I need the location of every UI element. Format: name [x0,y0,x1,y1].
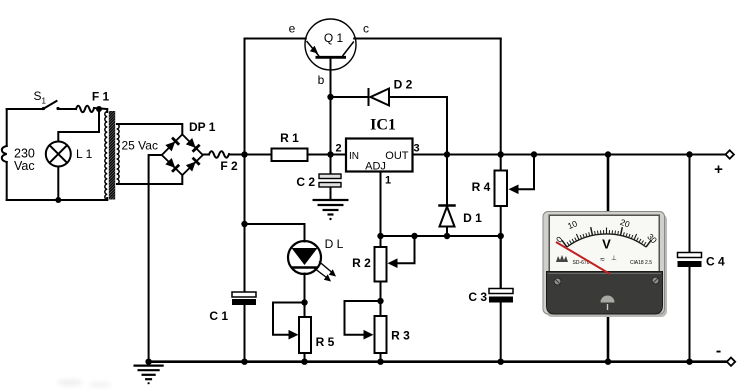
node C3 bottom [498,359,504,365]
transistor Q1 [305,19,356,70]
bridge diode top-left [165,138,179,152]
primary winding stub top [106,109,108,112]
lamp L1 [46,142,71,167]
svg-text:+: + [714,161,723,178]
fuse F1 [76,106,94,113]
node C4 bottom [686,359,692,365]
svg-text:⊥: ⊥ [611,255,617,262]
node base D2 [327,94,333,100]
resistor R2 [345,236,415,362]
bridge rectifier DP1 [162,134,203,175]
node R4 wiper rail [531,151,537,157]
wire mains left upper [6,109,8,146]
capacitor C1 [232,292,256,305]
node ADJ [377,233,383,239]
terminal - [727,358,735,366]
bridge diode bottom-left [165,158,179,172]
wire ADJ lead [380,172,382,237]
terminal + [726,150,734,158]
svg-text:≈: ≈ [600,255,605,264]
svg-text:IN: IN [349,151,359,162]
LED DL [288,241,336,282]
svg-text:R 3: R 3 [391,329,410,343]
wire bridge left corner to ground rail [149,155,162,362]
fuse F2 [209,151,229,158]
node R4 top [498,151,504,157]
node D1 bottom [444,233,450,239]
wire primary bottom [7,199,108,201]
capacitor C4 [678,155,702,362]
bridge diode top-right [185,138,199,152]
svg-text:1: 1 [42,97,47,106]
svg-text:R 5: R 5 [316,335,335,349]
wire rail to R1 [245,154,272,156]
resistor R3 [375,316,387,353]
bridge diode bottom-right [185,158,199,172]
wire OUT rail [413,154,726,156]
svg-text:DP 1: DP 1 [189,120,216,134]
svg-text:Vac: Vac [14,159,35,173]
wire primary top [7,108,43,110]
wiper R4 [509,155,535,195]
node input rail [241,151,247,157]
ground GND1 [135,366,163,385]
node R5 bottom [301,359,307,365]
resistor R5 [273,303,311,354]
svg-text:C 2: C 2 [296,175,315,189]
wiper R5 [273,303,305,335]
node R3 bottom [377,359,383,365]
svg-text:ADJ: ADJ [365,161,386,173]
svg-text:25 Vac: 25 Vac [122,139,158,153]
wire ADJ line [381,235,501,237]
node F1 junction [96,106,102,112]
wire lamp branch [58,109,99,142]
node IN junction [327,151,333,157]
secondary coil bumps [117,124,120,184]
wire left rail lower [244,305,246,362]
node R2/R3 junction [377,298,383,304]
svg-text:3: 3 [413,143,419,155]
svg-text:c: c [363,22,369,36]
wire mains left lower [6,162,8,200]
switch S1 [42,101,60,110]
svg-text:S: S [34,89,42,103]
capacitor C3 [489,236,513,303]
resistor R1 [272,149,308,162]
regulator IC1 [346,139,413,172]
wire bridge to F2 [203,154,209,156]
node C1 bottom [241,359,247,365]
wire secondary bottom to bridge [117,175,182,184]
svg-text:ClA18 2.5: ClA18 2.5 [630,260,652,266]
voltmeter M1 [543,212,667,318]
wire R1 to IC1 [308,154,347,156]
svg-text:R 1: R 1 [280,131,299,145]
node R5 wiper tap [301,299,307,305]
wire top rail collector side [354,38,501,40]
meter scale [554,217,659,247]
wire collector drop / R4 branch [500,39,502,171]
wire base lead [330,58,332,155]
ac source squiggle [2,146,7,162]
node ground rail [145,359,151,365]
svg-text:F 2: F 2 [220,159,238,173]
svg-text:OUT: OUT [385,150,409,162]
svg-text:-: - [716,343,721,360]
needle [556,242,610,274]
primary winding stub bottom [106,198,108,200]
diode D1 [446,155,448,206]
capacitor C2 [319,155,341,200]
node DL branch [241,221,247,227]
resistor R4 [495,171,508,207]
wire secondary top to bridge [117,124,182,134]
primary coil bumps [105,112,107,200]
wire F1 to transformer [94,108,107,109]
svg-text:IC1: IC1 [370,117,396,134]
transformer T1 [105,111,119,200]
wire left rail upper [244,39,246,293]
svg-text:b: b [318,73,325,87]
bottom rail [149,360,727,363]
node C4 top [686,151,692,157]
ground GND2 [313,200,349,220]
svg-text:C 3: C 3 [468,290,487,304]
svg-text:1: 1 [385,175,391,187]
node meter bottom [605,359,611,365]
diode D2 [331,89,448,155]
svg-text:Q 1: Q 1 [324,31,344,45]
svg-text:F 1: F 1 [92,90,110,104]
svg-text:V: V [602,237,611,252]
wire S1 to F1 [58,108,76,110]
svg-text:L 1: L 1 [76,147,93,161]
node meter top [605,151,611,157]
wiper R3 [345,301,381,335]
svg-text:D 1: D 1 [463,211,482,225]
wire top rail emitter side [245,38,306,40]
wire lamp to bottom [57,167,59,201]
svg-text:D 2: D 2 [394,78,413,92]
svg-text:R 2: R 2 [352,256,371,270]
node D2/D1 rail [444,151,450,157]
node lamp bottom [55,197,61,203]
wire DL branch [245,224,308,362]
node R2 wiper tap [411,233,417,239]
faint smudge [57,379,111,388]
svg-text:2: 2 [335,143,341,155]
svg-text:e: e [289,22,296,36]
svg-text:D L: D L [325,237,344,251]
wire F2 to rail [229,154,245,156]
svg-text:R 4: R 4 [472,180,491,194]
wiper R2 [396,236,415,263]
svg-text:C 1: C 1 [209,309,228,323]
svg-text:C 4: C 4 [706,255,725,269]
wire meter leads [607,155,610,362]
node R4 bottom [498,233,504,239]
